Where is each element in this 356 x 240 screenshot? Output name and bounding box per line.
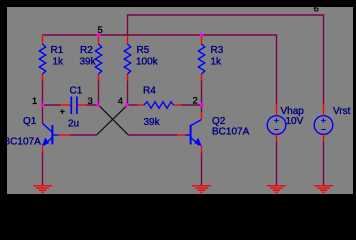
svg-text:4: 4 (118, 96, 123, 107)
svg-text:C1: C1 (70, 86, 83, 97)
svg-text:R4: R4 (143, 86, 156, 97)
svg-text:BC107A: BC107A (4, 137, 42, 148)
ground under Vhap (267, 186, 286, 193)
resistor R4 pins (137, 104, 181, 106)
resistor R5 pins (127, 36, 129, 81)
svg-text:2: 2 (193, 96, 198, 107)
transistor Q1 (42, 124, 59, 146)
wire node5 right vertical to Vhap (276, 34, 278, 104)
wire node 1 to C1 (43, 104, 62, 106)
wire node 1 down to Q1 collector (42, 105, 44, 124)
junction node 3 (96, 103, 100, 107)
border frame top (0, 0, 356, 7)
resistor R1 pins (42, 35, 44, 81)
junction node 1 (40, 103, 44, 107)
label R1 (51, 45, 64, 56)
value Q1 BC107A (4, 137, 42, 148)
svg-text:39k: 39k (80, 57, 97, 68)
transistor Q1 pins (43, 135, 71, 153)
transistor Q2 pins (177, 112, 202, 153)
wire Vhap bottom to ground (276, 141, 278, 186)
border frame bottom (0, 194, 356, 199)
ground under Vrst (314, 186, 333, 193)
wire node5 horizontal (43, 34, 277, 36)
node number 6 (314, 4, 319, 15)
resistor R3 (198, 44, 204, 74)
resistor R4 (144, 102, 174, 108)
wire X to Q2 base horizontal (128, 134, 177, 136)
value Vhap 10V (286, 116, 304, 127)
wire Vrst bottom to ground (323, 141, 325, 186)
wire Q1 base horizontal (70, 134, 97, 136)
wire node6 right vertical to Vrst (323, 14, 325, 104)
wire R1 bottom to node 1 (42, 81, 44, 106)
resistor R1 (39, 44, 45, 74)
label Q2 (212, 116, 226, 127)
wire R4 to node 2 (181, 104, 202, 106)
label R2 (80, 45, 93, 56)
label R3 (211, 45, 224, 56)
svg-text:Q1: Q1 (23, 116, 37, 127)
svg-text:Vrst: Vrst (333, 106, 351, 117)
wire node 3 cross-coupling diagonal to Q2 base (99, 105, 129, 135)
wire R5 bottom to node 4 (127, 81, 129, 106)
label Vrst (333, 106, 351, 117)
svg-text:R3: R3 (211, 45, 224, 56)
node number 2 (193, 96, 198, 107)
label C1 (70, 86, 83, 97)
svg-text:1k: 1k (211, 57, 223, 68)
resistor R2 (95, 44, 101, 74)
label Vhap (281, 106, 305, 117)
voltage source Vhap pins (276, 104, 278, 141)
label R4 (143, 86, 156, 97)
svg-text:100k: 100k (136, 57, 159, 68)
value R2 39k (80, 57, 97, 68)
resistor R3 pins (201, 35, 203, 81)
svg-text:10V: 10V (286, 116, 304, 127)
junction node 5 at R3 (200, 33, 204, 37)
svg-text:39k: 39k (144, 117, 161, 128)
svg-text:R5: R5 (137, 45, 150, 56)
junction node 4 (125, 103, 129, 107)
value R4 39k (144, 117, 161, 128)
value R5 100k (136, 57, 159, 68)
wire R3 bottom to node 2 (201, 81, 203, 106)
svg-text:2u: 2u (68, 119, 79, 130)
wire node 4 to R4 (128, 104, 138, 106)
wire R2 bottom to node 3 (98, 81, 100, 106)
node number 4 (118, 96, 123, 107)
border frame right (353, 0, 356, 199)
svg-text:1k: 1k (53, 57, 65, 68)
resistor R5 (124, 44, 130, 74)
ground under Q2 (192, 186, 211, 193)
wire node6 left vertical to R5 (127, 14, 129, 35)
wire Q2 emitter to ground (201, 153, 203, 187)
label R5 (137, 45, 150, 56)
wire node 4 cross-coupling diagonal to Q1 base (97, 105, 128, 135)
border frame left (0, 0, 7, 199)
voltage source Vrst (314, 116, 333, 135)
node number 5 (98, 25, 103, 36)
value Q2 BC107A (212, 127, 250, 138)
svg-text:R1: R1 (51, 45, 64, 56)
capacitor C1 plus polarity mark (60, 109, 65, 114)
capacitor C1 (71, 97, 77, 115)
wire Q1 emitter to ground (42, 153, 44, 187)
svg-text:3: 3 (88, 96, 93, 107)
svg-text:R2: R2 (80, 45, 93, 56)
value C1 2u (68, 119, 79, 130)
voltage source Vhap (267, 116, 286, 135)
wire C1 to node 3 (87, 104, 99, 106)
label Q1 (23, 116, 37, 127)
transistor Q2 (185, 120, 202, 146)
capacitor C1 pins (61, 104, 87, 106)
junction node 5 at R2 (97, 33, 101, 37)
node number 3 (88, 96, 93, 107)
node number 1 (32, 96, 37, 107)
svg-text:BC107A: BC107A (212, 127, 250, 138)
junction node 2 (200, 103, 204, 107)
value R1 1k (53, 57, 65, 68)
wire node 2 down to Q2 collector (201, 105, 203, 113)
voltage source Vrst pins (323, 104, 325, 141)
resistor R2 pins (98, 35, 100, 81)
value R3 1k (211, 57, 223, 68)
svg-text:Q2: Q2 (212, 116, 226, 127)
svg-text:5: 5 (98, 25, 103, 36)
ground under Q1 (33, 186, 52, 193)
svg-text:1: 1 (32, 96, 37, 107)
wire node6 top (128, 14, 324, 16)
